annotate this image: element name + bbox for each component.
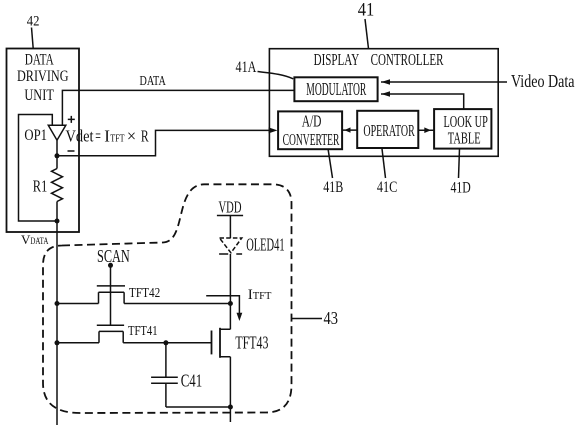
svg-text:MODULATOR: MODULATOR (306, 79, 366, 99)
svg-text:OP1: OP1 (24, 127, 47, 144)
svg-text:OPERATOR: OPERATOR (363, 121, 415, 140)
svg-text:TFT41: TFT41 (128, 323, 158, 338)
svg-text:41C: 41C (377, 179, 397, 196)
svg-text:41D: 41D (451, 179, 471, 196)
svg-text:A/D: A/D (302, 112, 322, 131)
svg-text:DRIVING: DRIVING (17, 68, 69, 85)
svg-text:42: 42 (27, 14, 40, 30)
svg-text:TFT43: TFT43 (235, 333, 268, 353)
svg-text:TFT42: TFT42 (129, 285, 160, 300)
svg-text:DATA: DATA (140, 74, 167, 89)
svg-text:OLED41: OLED41 (246, 235, 284, 255)
svg-text:DATA: DATA (25, 52, 54, 69)
svg-text:CONTROLLER: CONTROLLER (371, 50, 444, 69)
svg-text:41: 41 (358, 0, 375, 21)
svg-text:DISPLAY: DISPLAY (314, 50, 360, 69)
svg-text:Video Data: Video Data (511, 71, 575, 91)
svg-text:41B: 41B (323, 179, 343, 196)
svg-text:UNIT: UNIT (24, 87, 54, 104)
svg-text:CONVERTER: CONVERTER (283, 130, 340, 149)
svg-text:TABLE: TABLE (448, 129, 481, 148)
svg-text:R1: R1 (33, 176, 48, 195)
svg-text:SCAN: SCAN (97, 246, 130, 266)
svg-text:43: 43 (324, 308, 339, 328)
svg-text:41A: 41A (236, 59, 257, 76)
svg-text:C41: C41 (181, 371, 203, 391)
svg-text:VDD: VDD (219, 198, 242, 217)
